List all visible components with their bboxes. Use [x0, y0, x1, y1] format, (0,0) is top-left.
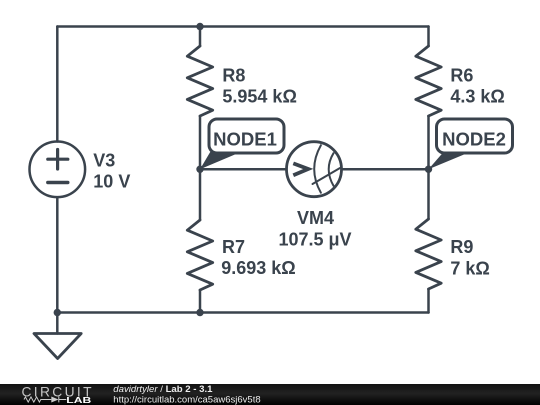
svg-text:107.5 μV: 107.5 μV — [278, 229, 351, 249]
svg-text:5.954 kΩ: 5.954 kΩ — [222, 86, 297, 106]
svg-text:NODE1: NODE1 — [213, 129, 277, 150]
svg-text:R9: R9 — [450, 237, 473, 257]
svg-text:http://circuitlab.com/ca5aw6sj: http://circuitlab.com/ca5aw6sj6v5t8 — [113, 394, 260, 405]
svg-text:9.693 kΩ: 9.693 kΩ — [221, 258, 296, 278]
svg-text:R8: R8 — [222, 65, 245, 85]
svg-text:NODE2: NODE2 — [442, 129, 506, 150]
svg-text:V3: V3 — [93, 150, 115, 170]
svg-text:4.3 kΩ: 4.3 kΩ — [450, 86, 504, 106]
svg-text:R6: R6 — [450, 65, 473, 85]
svg-text:7 kΩ: 7 kΩ — [450, 259, 489, 279]
svg-text:LAB: LAB — [66, 395, 91, 405]
svg-text:VM4: VM4 — [297, 208, 334, 228]
svg-text:R7: R7 — [222, 237, 245, 257]
svg-text:10 V: 10 V — [93, 172, 130, 192]
